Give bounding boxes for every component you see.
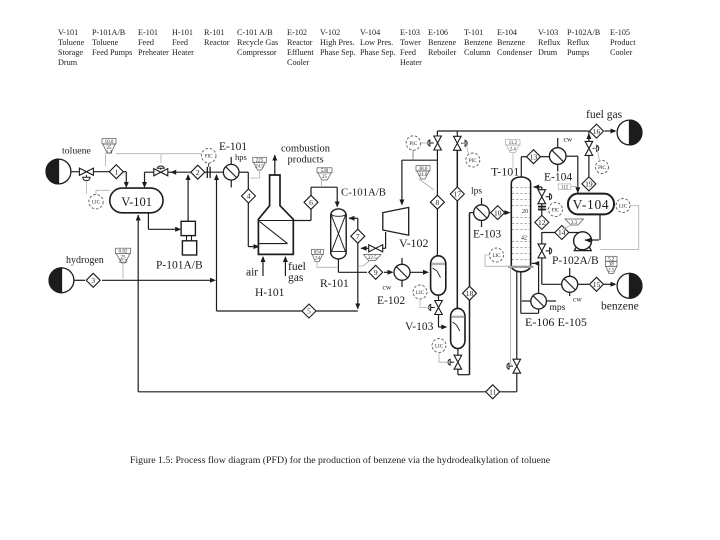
svg-text:mps: mps (550, 303, 566, 313)
svg-text:Feed: Feed (400, 48, 416, 57)
svg-text:Preheater: Preheater (138, 48, 169, 57)
svg-text:16: 16 (593, 127, 601, 136)
svg-text:12: 12 (538, 218, 546, 227)
svg-text:Benzene: Benzene (428, 38, 457, 47)
svg-text:Reactor: Reactor (287, 38, 313, 47)
svg-text:PIC: PIC (469, 159, 477, 164)
svg-text:cw: cw (383, 283, 392, 292)
svg-text:Drum: Drum (538, 48, 558, 57)
svg-text:FIC: FIC (205, 155, 213, 160)
svg-text:Feed: Feed (172, 38, 188, 47)
svg-text:E-103: E-103 (473, 229, 501, 241)
svg-text:20: 20 (522, 209, 528, 215)
svg-text:V-102: V-102 (399, 236, 429, 250)
svg-text:air: air (246, 267, 258, 279)
svg-text:Benzene: Benzene (497, 38, 526, 47)
svg-text:Reboiler: Reboiler (428, 48, 456, 57)
svg-text:Cooler: Cooler (287, 58, 310, 67)
svg-text:E-106: E-106 (525, 315, 554, 329)
svg-text:Phase Sep.: Phase Sep. (360, 48, 395, 57)
svg-text:Pumps: Pumps (567, 48, 589, 57)
svg-text:H-101: H-101 (172, 28, 193, 37)
svg-text:Cooler: Cooler (610, 48, 633, 57)
svg-text:V-103: V-103 (538, 28, 558, 37)
svg-text:toluene: toluene (62, 146, 91, 157)
svg-text:PIC: PIC (409, 142, 417, 147)
svg-text:lps: lps (471, 187, 482, 197)
svg-text:11.2: 11.2 (509, 141, 518, 146)
svg-text:8: 8 (436, 198, 440, 207)
svg-text:FIC: FIC (552, 209, 560, 214)
svg-text:Figure 1.5: Process flow diag: Figure 1.5: Process flow diagram (PFD) f… (130, 455, 551, 466)
svg-text:Benzene: Benzene (464, 38, 493, 47)
svg-text:38.0: 38.0 (419, 167, 428, 172)
svg-text:Toluene: Toluene (58, 38, 85, 47)
svg-text:C-101A/B: C-101A/B (341, 187, 386, 199)
svg-text:Compressor: Compressor (237, 48, 277, 57)
svg-text:24: 24 (315, 257, 321, 262)
svg-text:3: 3 (91, 276, 95, 285)
svg-text:E-104: E-104 (497, 28, 517, 37)
svg-text:benzene: benzene (601, 301, 639, 313)
svg-text:530: 530 (321, 169, 329, 174)
svg-text:6: 6 (309, 198, 313, 207)
svg-text:V-104: V-104 (360, 28, 380, 37)
svg-text:E-105: E-105 (610, 28, 630, 37)
svg-text:LIC: LIC (416, 291, 425, 296)
svg-text:42: 42 (521, 236, 527, 242)
svg-text:PIC: PIC (598, 166, 606, 171)
svg-text:P-101A/B: P-101A/B (92, 28, 126, 37)
svg-text:9: 9 (374, 268, 378, 277)
svg-text:5: 5 (307, 307, 311, 316)
svg-text:C-101 A/B: C-101 A/B (237, 28, 273, 37)
svg-text:cw: cw (564, 135, 573, 144)
svg-text:19: 19 (585, 180, 593, 189)
svg-text:Heater: Heater (400, 58, 422, 67)
svg-text:3.3: 3.3 (571, 221, 578, 226)
svg-text:P-102A/B: P-102A/B (552, 255, 599, 267)
svg-text:18: 18 (466, 289, 474, 298)
svg-text:25: 25 (322, 175, 328, 180)
svg-text:E-104: E-104 (544, 172, 572, 184)
svg-text:LIC: LIC (619, 205, 628, 210)
svg-text:17: 17 (454, 190, 462, 199)
svg-text:E-105: E-105 (558, 315, 587, 329)
svg-text:LIC: LIC (92, 201, 101, 206)
svg-text:Low Pres.: Low Pres. (360, 38, 393, 47)
svg-text:Product: Product (610, 38, 636, 47)
svg-text:Reflux: Reflux (538, 38, 560, 47)
svg-text:15: 15 (593, 280, 601, 289)
svg-text:V-104: V-104 (573, 197, 610, 212)
svg-text:7: 7 (356, 232, 360, 241)
svg-text:1.4: 1.4 (106, 150, 113, 155)
svg-text:2.4: 2.4 (510, 148, 517, 153)
svg-text:LIC: LIC (492, 254, 501, 259)
svg-text:cw: cw (573, 295, 582, 304)
svg-text:Reactor: Reactor (204, 38, 230, 47)
svg-text:V-102: V-102 (320, 28, 340, 37)
svg-text:13: 13 (530, 152, 538, 161)
svg-text:Tower: Tower (400, 38, 421, 47)
svg-text:combustion: combustion (281, 144, 331, 155)
svg-text:Phase Sep.: Phase Sep. (320, 48, 355, 57)
svg-text:Feed: Feed (138, 38, 154, 47)
svg-text:P-101A/B: P-101A/B (156, 260, 203, 272)
svg-text:Toluene: Toluene (92, 38, 119, 47)
svg-text:1: 1 (114, 167, 118, 176)
svg-text:Recycle Gas: Recycle Gas (237, 38, 278, 47)
svg-text:T-101: T-101 (464, 28, 483, 37)
svg-text:P-102A/B: P-102A/B (567, 28, 601, 37)
svg-text:LIC: LIC (435, 345, 444, 350)
svg-text:Reflux: Reflux (567, 38, 589, 47)
svg-text:22.5: 22.5 (368, 256, 377, 261)
svg-text:Feed Pumps: Feed Pumps (92, 48, 132, 57)
svg-text:High Pres.: High Pres. (320, 38, 355, 47)
svg-text:38: 38 (609, 263, 615, 268)
svg-text:4: 4 (247, 192, 251, 201)
svg-text:E-102: E-102 (377, 295, 405, 307)
svg-text:2: 2 (196, 168, 200, 177)
svg-text:Condenser: Condenser (497, 48, 532, 57)
svg-text:0.82: 0.82 (119, 250, 128, 255)
svg-text:H-101: H-101 (255, 287, 285, 299)
svg-text:24.0: 24.0 (419, 173, 428, 178)
svg-text:V-103: V-103 (405, 321, 434, 333)
svg-text:fuel gas: fuel gas (586, 109, 623, 121)
svg-text:hps: hps (235, 152, 247, 162)
svg-text:225: 225 (256, 159, 264, 164)
svg-text:gas: gas (288, 272, 304, 284)
svg-text:10: 10 (494, 208, 502, 217)
svg-text:Storage: Storage (58, 48, 83, 57)
svg-text:14: 14 (558, 228, 566, 237)
svg-text:Effluent: Effluent (287, 48, 314, 57)
svg-text:R-101: R-101 (204, 28, 224, 37)
svg-text:11: 11 (489, 388, 496, 397)
svg-text:10.0: 10.0 (105, 140, 114, 145)
svg-text:Heater: Heater (172, 48, 194, 57)
svg-text:E-103: E-103 (400, 28, 420, 37)
svg-text:Drum: Drum (58, 58, 78, 67)
svg-text:E-101: E-101 (138, 28, 158, 37)
svg-text:T-101: T-101 (491, 165, 519, 179)
svg-text:V-101: V-101 (58, 28, 78, 37)
svg-text:hydrogen: hydrogen (66, 255, 104, 266)
svg-text:654: 654 (314, 251, 322, 256)
svg-text:V-101: V-101 (121, 195, 152, 209)
svg-text:112: 112 (561, 186, 569, 191)
svg-text:products: products (288, 154, 324, 165)
svg-text:Column: Column (464, 48, 490, 57)
svg-text:E-106: E-106 (428, 28, 448, 37)
svg-text:R-101: R-101 (320, 278, 349, 290)
svg-text:E-102: E-102 (287, 28, 307, 37)
svg-text:2.5: 2.5 (608, 269, 615, 274)
svg-text:24.5: 24.5 (255, 164, 264, 169)
